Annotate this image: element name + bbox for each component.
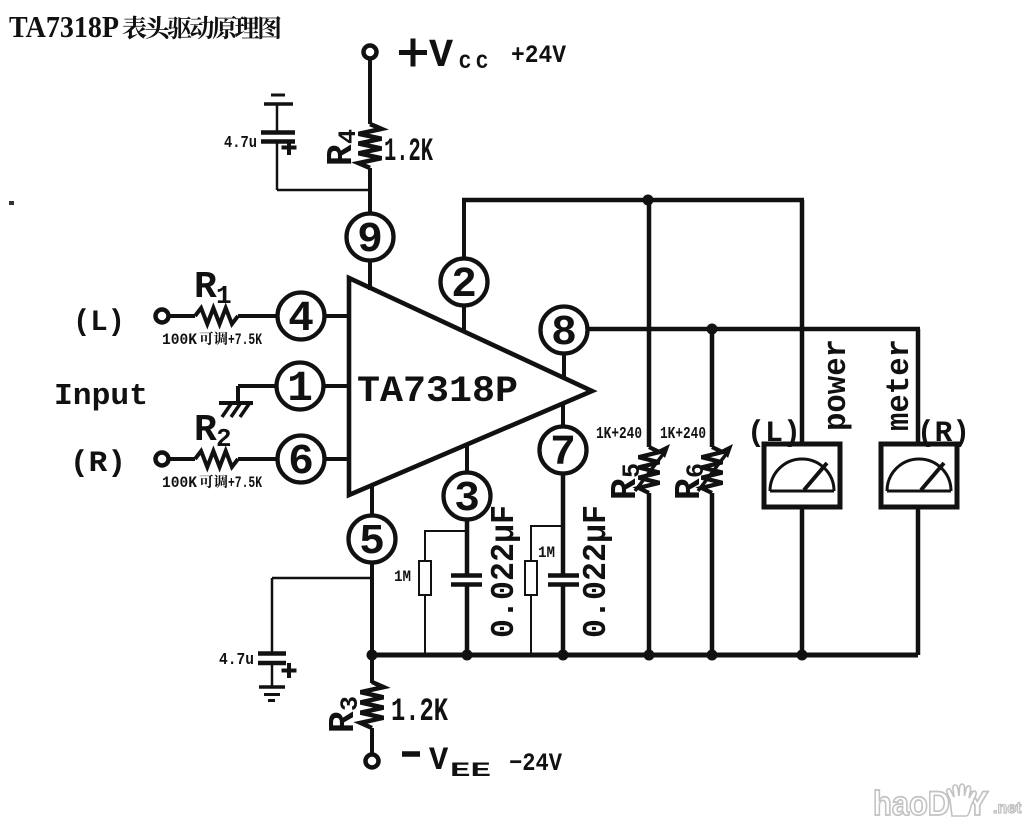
svg-text:7: 7	[550, 428, 576, 477]
svg-text:+7.5K: +7.5K	[228, 331, 262, 349]
svg-text:3: 3	[336, 696, 365, 711]
svg-text:.net: .net	[993, 800, 1022, 817]
svg-text:4: 4	[334, 129, 363, 144]
svg-text:5: 5	[618, 463, 647, 478]
svg-text:1.2K: 1.2K	[384, 133, 434, 170]
svg-text:TA7318P: TA7318P	[357, 371, 518, 413]
svg-text:+7.5K: +7.5K	[228, 474, 262, 492]
svg-text:R: R	[321, 144, 362, 166]
svg-text:−24V: −24V	[509, 749, 562, 778]
svg-text:power: power	[818, 339, 855, 431]
svg-text:1M: 1M	[394, 568, 411, 586]
svg-text:3: 3	[454, 474, 480, 523]
svg-text:6: 6	[682, 463, 711, 478]
svg-text:1.2K: 1.2K	[391, 693, 449, 730]
svg-text:(R): (R)	[70, 447, 126, 481]
svg-text:(L): (L)	[747, 417, 801, 451]
svg-text:1K+240: 1K+240	[660, 425, 706, 444]
svg-text:+24V: +24V	[511, 41, 566, 70]
svg-text:8: 8	[551, 308, 577, 357]
svg-text:R: R	[194, 266, 217, 309]
svg-text:4.7u: 4.7u	[219, 651, 254, 670]
svg-text:0.022μF: 0.022μF	[486, 505, 523, 638]
svg-text:R: R	[669, 478, 710, 500]
svg-text:1M: 1M	[538, 544, 555, 562]
svg-text:2: 2	[451, 260, 477, 309]
svg-text:0.022μF: 0.022μF	[578, 505, 615, 638]
svg-text:V: V	[429, 742, 449, 779]
svg-text:(L): (L)	[73, 306, 125, 340]
svg-text:6: 6	[288, 437, 314, 486]
svg-text:TA7318P: TA7318P	[9, 9, 119, 44]
svg-text:V: V	[429, 34, 453, 79]
svg-text:9: 9	[357, 215, 383, 264]
svg-text:100K: 100K	[162, 331, 197, 349]
svg-text:haoD: haoD	[873, 785, 950, 823]
svg-text:CC: CC	[459, 52, 493, 75]
svg-text:meter: meter	[881, 339, 918, 431]
svg-text:EE: EE	[450, 760, 491, 783]
svg-text:R: R	[194, 409, 217, 452]
svg-text:5: 5	[359, 517, 385, 566]
svg-text:(R): (R)	[917, 417, 970, 451]
svg-text:1: 1	[287, 364, 313, 413]
svg-text:1K+240: 1K+240	[596, 425, 642, 444]
svg-text:R: R	[323, 711, 364, 733]
svg-text:2: 2	[216, 424, 232, 454]
svg-text:Input: Input	[54, 379, 148, 414]
svg-text:R: R	[605, 478, 646, 500]
svg-text:1: 1	[216, 281, 232, 311]
svg-text:4.7u: 4.7u	[224, 134, 257, 153]
svg-text:4: 4	[288, 294, 314, 343]
svg-text:100K: 100K	[162, 474, 197, 492]
